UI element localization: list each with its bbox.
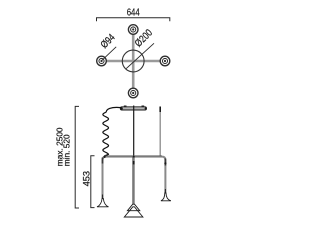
svg-text:644: 644 bbox=[127, 7, 140, 18]
svg-text:min. 520: min. 520 bbox=[61, 134, 71, 166]
svg-text:453: 453 bbox=[82, 171, 92, 186]
